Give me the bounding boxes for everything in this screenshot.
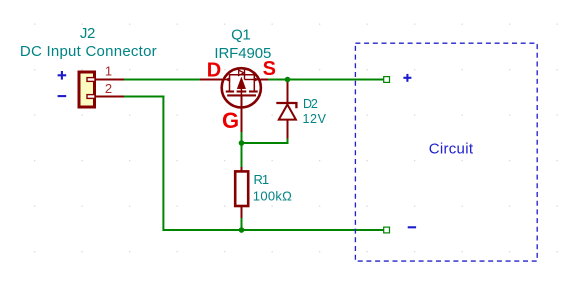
svg-text:Q1: Q1 xyxy=(231,27,250,44)
Q1 diode cathode link xyxy=(245,79,255,81)
Q1 source inner lead xyxy=(258,79,261,81)
transistor Q1 body circle xyxy=(222,68,261,107)
wire bottom rail xyxy=(163,229,384,231)
Q1 channel segment left xyxy=(226,90,234,92)
diode D2 zener bar xyxy=(276,103,296,108)
junction node G/D2 xyxy=(239,140,245,146)
svg-text:12V: 12V xyxy=(303,112,327,126)
circuit box dashed xyxy=(355,43,537,261)
pin lead Q1 source xyxy=(261,79,269,81)
Q1 substrate arrow xyxy=(237,77,245,89)
connector J2 pin1 stub xyxy=(87,78,95,82)
Q1 drain inner lead xyxy=(222,79,226,81)
resistor R1 body xyxy=(235,171,248,206)
wire gate to D2 bottom xyxy=(242,138,288,144)
svg-text:D2: D2 xyxy=(303,97,318,111)
connector J2 pin2 stub xyxy=(87,95,95,99)
wire S to circuit + xyxy=(268,79,384,81)
Q1 gate plate xyxy=(227,94,256,96)
Q1 channel segment right xyxy=(249,90,258,92)
pin lead J2 pin1 xyxy=(96,79,124,81)
connector J2 body xyxy=(79,72,95,107)
svg-text:S: S xyxy=(263,58,276,80)
pin lead D2 top xyxy=(287,80,289,105)
pin lead R1 bottom xyxy=(241,206,243,218)
svg-text:D: D xyxy=(207,60,221,82)
junction node S/D2 xyxy=(285,77,291,83)
diode D2 triangle xyxy=(279,105,296,120)
wire pin2 horizontal xyxy=(124,96,164,98)
wire gate down xyxy=(241,131,243,168)
pin lead J2 pin2 xyxy=(96,96,124,98)
junction node R1/bottom rail xyxy=(239,227,245,233)
label + at connector xyxy=(58,71,67,80)
Q1 top rail xyxy=(230,74,255,76)
svg-text:J2: J2 xyxy=(80,25,95,42)
label + at circuit xyxy=(403,74,411,82)
Q1 substrate stub xyxy=(240,89,242,96)
Q1 left internal drop xyxy=(229,74,231,91)
Q1 drain arrow xyxy=(225,78,230,82)
terminal square - xyxy=(384,227,390,233)
wire R1 bottom xyxy=(241,217,243,230)
svg-text:1: 1 xyxy=(105,64,112,79)
pin lead Q1 drain xyxy=(200,79,222,81)
pin lead Q1 gate xyxy=(241,95,243,132)
Q1 right internal drop xyxy=(253,74,255,91)
terminal square + xyxy=(384,77,390,83)
Q1 body diode triangle xyxy=(239,70,244,75)
Q1 source arrow xyxy=(254,78,259,82)
Q1 channel segment middle xyxy=(237,90,247,92)
svg-text:2: 2 xyxy=(105,81,112,96)
wire pin2 vertical xyxy=(162,96,164,232)
pin lead D2 bottom xyxy=(287,119,289,139)
label - at circuit xyxy=(408,226,416,228)
svg-text:DC Input Connector: DC Input Connector xyxy=(20,43,157,60)
wire pin1 to D xyxy=(124,79,201,81)
svg-text:G: G xyxy=(222,108,239,133)
svg-text:Circuit: Circuit xyxy=(429,141,474,158)
pin lead R1 top xyxy=(241,167,243,171)
Q1 body diode bar xyxy=(244,69,246,79)
svg-text:R1: R1 xyxy=(254,172,269,187)
label - at connector xyxy=(58,95,67,97)
svg-text:100kΩ: 100kΩ xyxy=(253,188,292,203)
